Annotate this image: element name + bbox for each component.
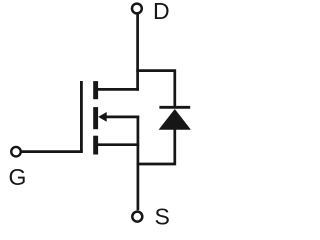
MOSFET Q1 body arrow — [98, 112, 107, 122]
wire: source vertical down to S terminal — [137, 116, 140, 211]
wire: source bar to source vertical — [98, 143, 140, 146]
terminal S (source pin circle) — [132, 212, 142, 222]
wire: diode anode down and left to source node — [137, 128, 175, 164]
svg-text:S: S — [155, 204, 170, 230]
MOSFET Q1 drain channel bar — [93, 81, 98, 99]
wire: drain node to diode cathode branch — [136, 71, 175, 108]
wire: D terminal down to drain node — [136, 13, 139, 90]
diode D1 anode triangle — [159, 109, 191, 130]
MOSFET Q1 source channel bar — [93, 136, 98, 155]
wire: body arrow to source node — [106, 116, 139, 119]
wire: drain bar to drain node — [98, 88, 139, 91]
svg-text:D: D — [153, 0, 170, 24]
MOSFET Q1 body channel bar — [93, 107, 98, 129]
terminal G (gate pin circle) — [11, 147, 21, 157]
terminal D (drain pin circle) — [132, 4, 142, 14]
svg-text:G: G — [9, 164, 27, 190]
diode D1 cathode bar — [159, 106, 190, 109]
wire: G terminal to gate line — [21, 150, 82, 153]
MOSFET Q1 gate line — [80, 81, 83, 153]
